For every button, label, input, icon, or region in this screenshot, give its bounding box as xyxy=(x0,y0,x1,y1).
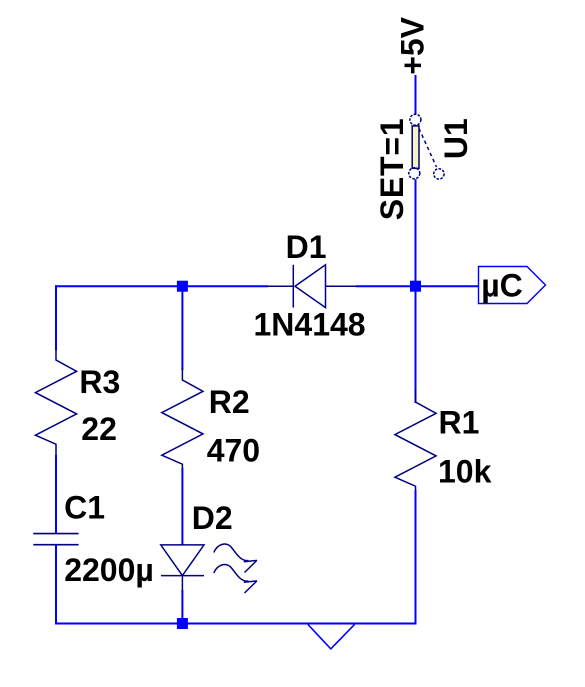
ground xyxy=(308,625,355,649)
svg-text:22: 22 xyxy=(81,411,117,447)
wire xyxy=(55,623,417,625)
junction xyxy=(177,618,188,629)
svg-text:D1: D1 xyxy=(286,229,327,265)
led arrows xyxy=(214,544,257,593)
svg-text:R1: R1 xyxy=(439,404,480,440)
wire xyxy=(415,490,417,625)
svg-text:10k: 10k xyxy=(438,454,492,490)
wire xyxy=(415,179,417,287)
wire xyxy=(181,590,183,620)
diode D1 xyxy=(267,265,357,308)
resistor R1 xyxy=(395,390,436,492)
svg-text:D2: D2 xyxy=(192,500,233,536)
svg-text:µC: µC xyxy=(481,267,523,303)
wire xyxy=(356,285,479,287)
junction xyxy=(410,281,421,292)
junction xyxy=(177,281,188,292)
svg-text:R2: R2 xyxy=(209,384,250,420)
wire xyxy=(415,75,417,115)
switch U1 xyxy=(409,114,444,179)
svg-text:1N4148: 1N4148 xyxy=(254,307,366,343)
svg-text:SET=1: SET=1 xyxy=(374,118,410,221)
wire xyxy=(181,468,183,545)
capacitor C1 xyxy=(33,534,78,545)
svg-text:470: 470 xyxy=(207,432,260,468)
svg-text:2200µ: 2200µ xyxy=(64,552,154,588)
resistor R2 xyxy=(162,368,203,470)
wire xyxy=(55,285,268,287)
wire xyxy=(55,455,57,534)
svg-text:R3: R3 xyxy=(79,364,120,400)
wire xyxy=(55,285,57,350)
wire xyxy=(415,287,417,403)
svg-text:U1: U1 xyxy=(438,118,474,159)
port flag uC xyxy=(479,267,546,304)
svg-text:C1: C1 xyxy=(64,489,105,525)
wire xyxy=(55,544,57,624)
led D2 xyxy=(161,545,204,592)
svg-text:+5V: +5V xyxy=(395,16,431,74)
wire xyxy=(181,291,183,370)
resistor R3 xyxy=(35,348,76,457)
